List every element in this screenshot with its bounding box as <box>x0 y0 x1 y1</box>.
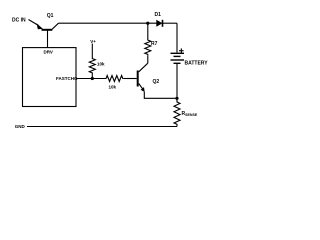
svg-text:DRV: DRV <box>44 49 53 54</box>
svg-text:V+: V+ <box>90 39 96 44</box>
svg-text:FASTCHG: FASTCHG <box>56 76 78 81</box>
svg-text:RSENSE: RSENSE <box>182 111 198 117</box>
svg-text:R7: R7 <box>151 41 158 47</box>
svg-text:10k: 10k <box>109 85 117 90</box>
svg-text:D1: D1 <box>155 12 162 18</box>
svg-text:GND: GND <box>15 124 26 129</box>
svg-text:Q1: Q1 <box>47 13 54 19</box>
svg-text:Q2: Q2 <box>153 79 160 85</box>
svg-text:10k: 10k <box>97 61 105 66</box>
svg-text:DC IN: DC IN <box>12 17 26 23</box>
svg-text:BATTERY: BATTERY <box>185 60 209 66</box>
